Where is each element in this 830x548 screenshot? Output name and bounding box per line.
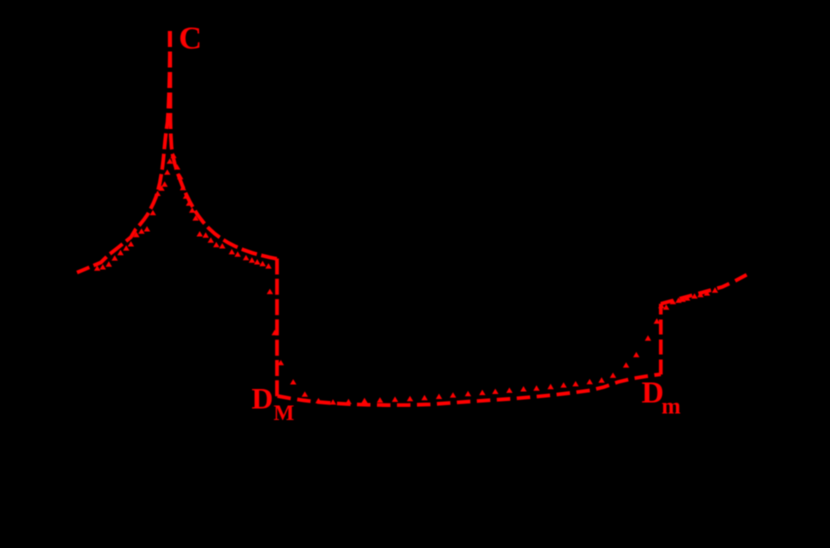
triangle markers: right branch and first descent: [174, 164, 308, 397]
svg-text:m: m: [662, 393, 681, 418]
dashed curve: top right rising line: [661, 275, 747, 304]
dashed curve: vertical drop at D_M: [275, 259, 279, 398]
svg-text:D: D: [252, 383, 274, 416]
dashed curve: vertical jump at D_m: [659, 304, 663, 375]
triangle markers: flat bottom section: [315, 377, 605, 404]
dashed curve: right branch descending from C: [170, 31, 277, 259]
dashed curve: left branch rising to divergence C: [77, 31, 170, 273]
triangle markers: after second jump: [663, 287, 718, 309]
svg-text:M: M: [274, 400, 295, 425]
triangle markers: left branch of peak: [94, 153, 177, 271]
triangle markers: ascent to second jump: [610, 303, 665, 378]
dashed curve: flat bottom section: [278, 374, 661, 405]
svg-text:C: C: [179, 20, 202, 56]
